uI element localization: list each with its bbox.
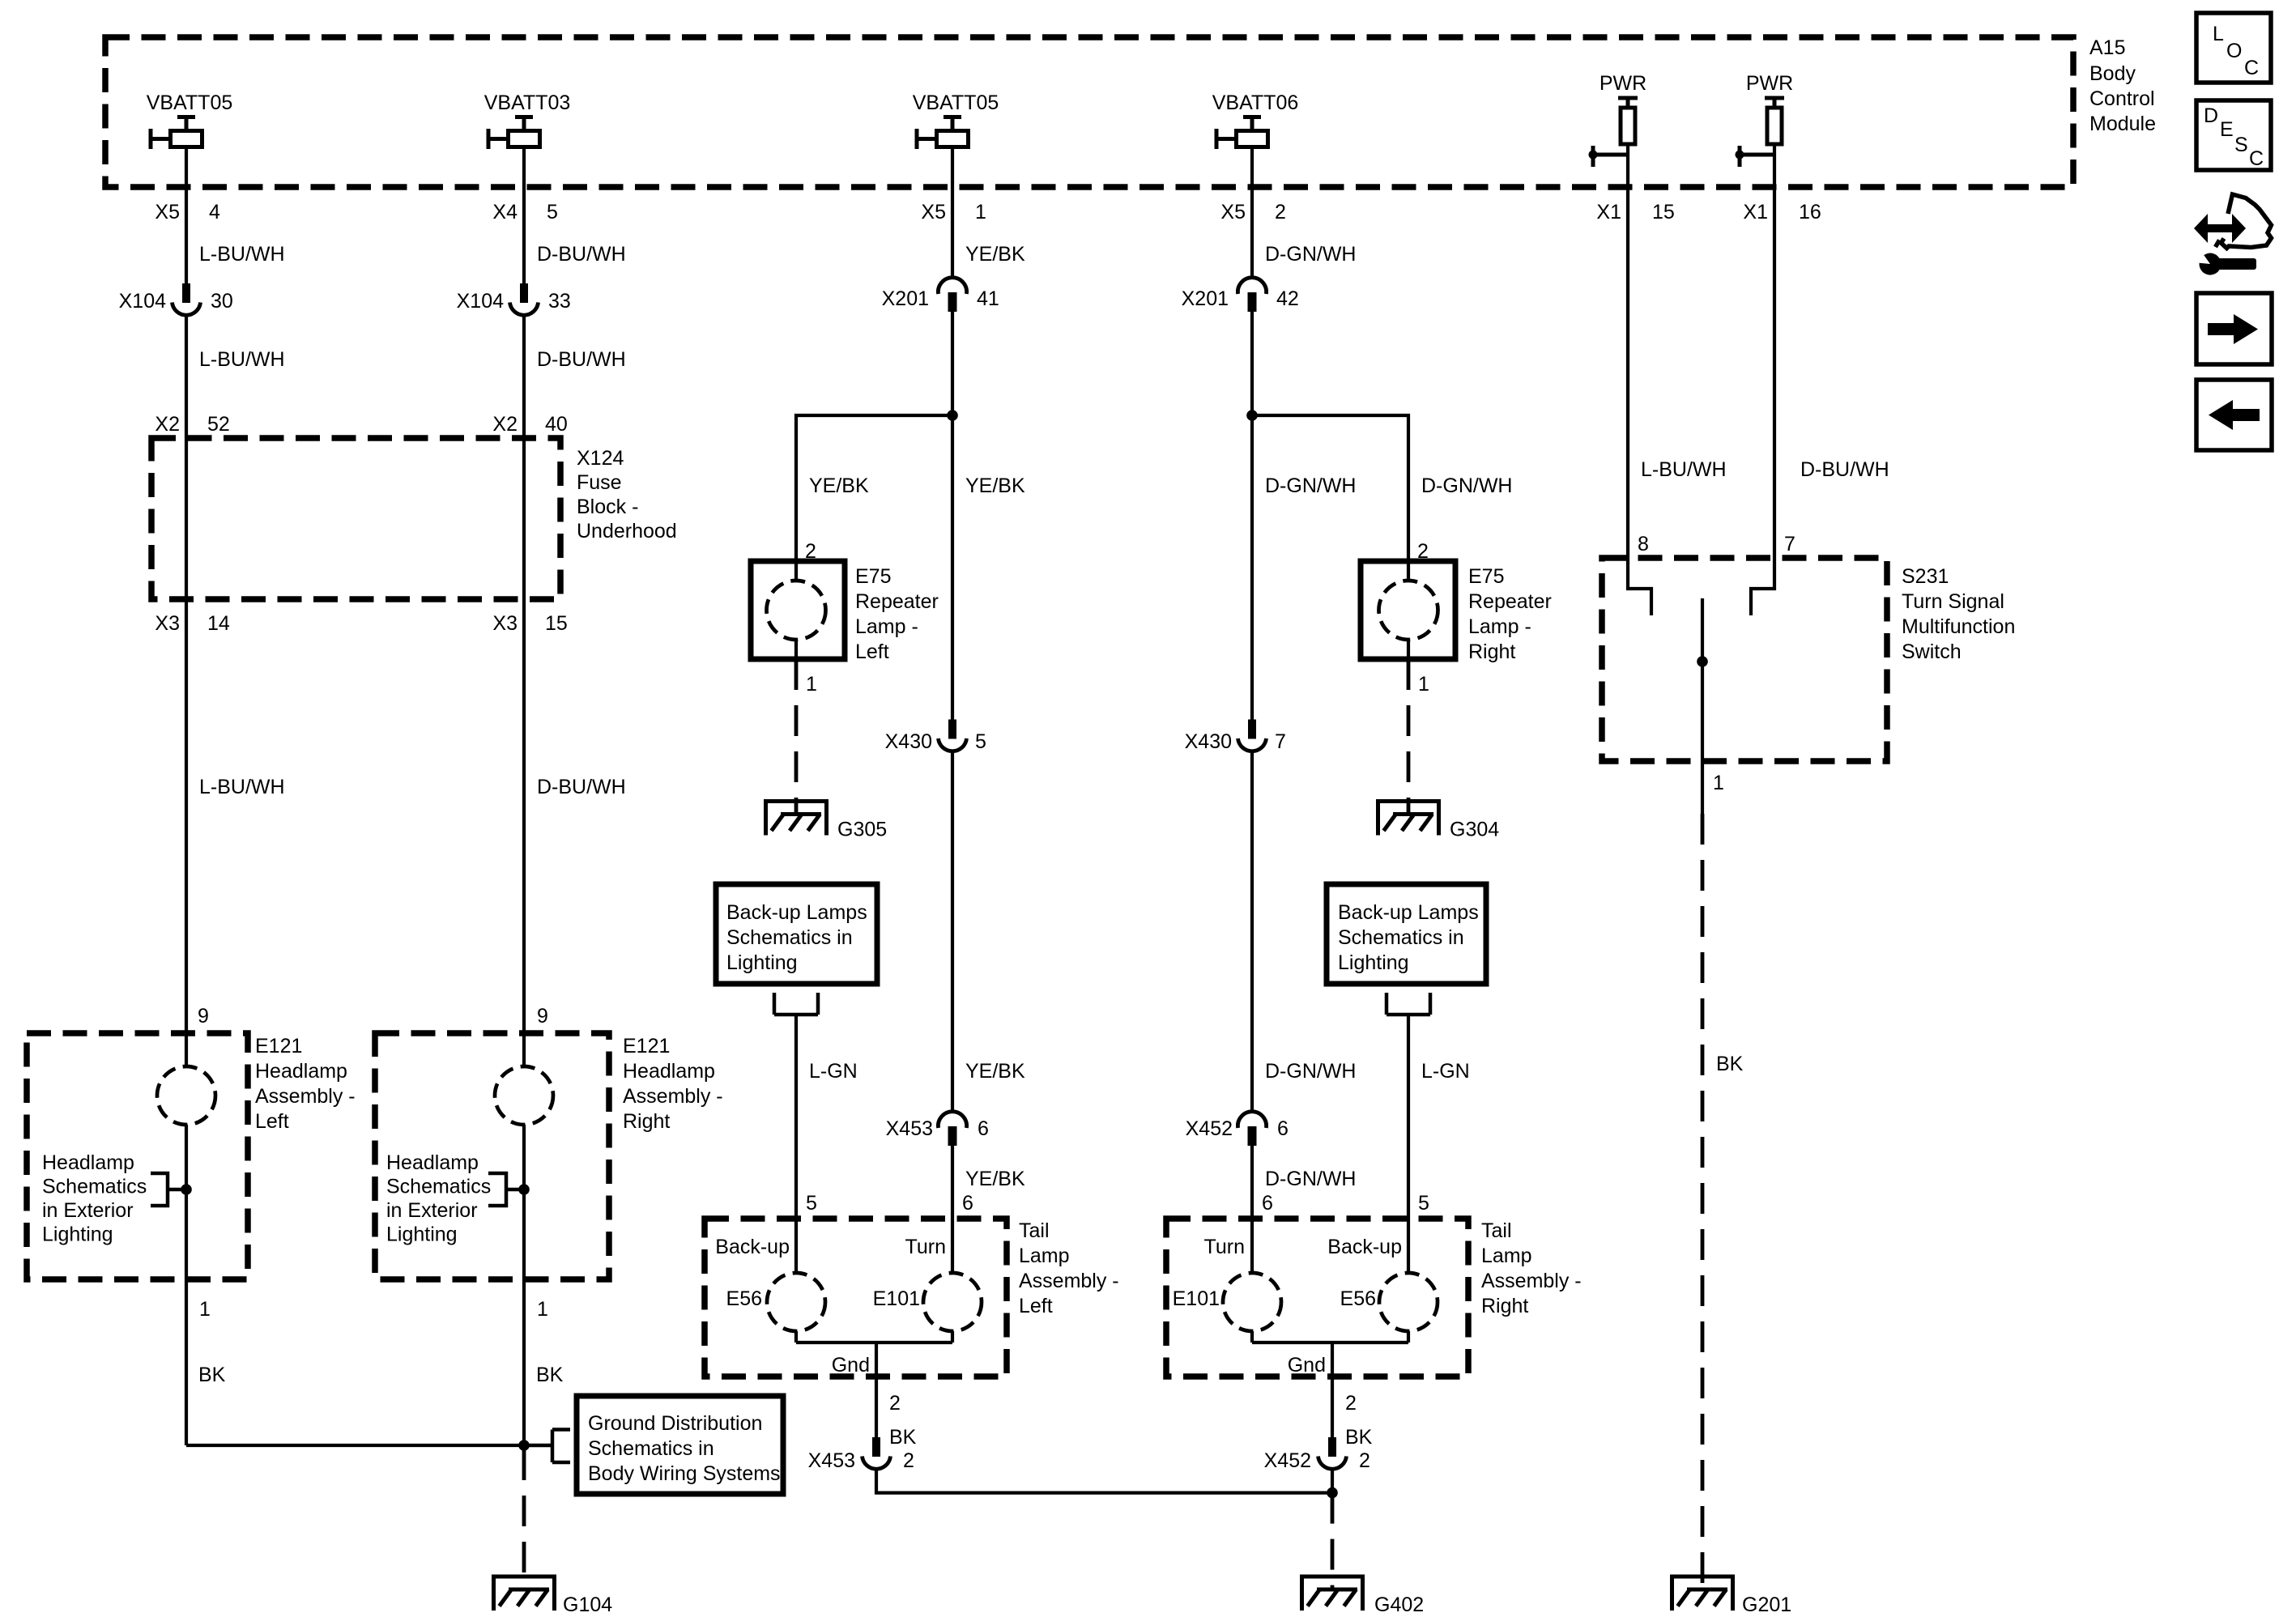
ground G104 <box>492 1575 612 1617</box>
svg-text:15: 15 <box>545 612 568 635</box>
svg-text:VBATT05: VBATT05 <box>147 91 233 114</box>
wire dashed E75 left to G305 <box>794 659 799 815</box>
svg-text:2: 2 <box>903 1449 914 1472</box>
lamp E56 back-up left <box>767 1273 825 1331</box>
node E121 left pin1 junction <box>181 1184 192 1195</box>
wire col5 PWR to S231 contact <box>1628 144 1651 615</box>
wire col2: lamp to ground run <box>522 1125 526 1448</box>
bracket below back-up box (right) <box>1387 993 1430 1015</box>
svg-text:L-BU/WH: L-BU/WH <box>199 348 285 371</box>
svg-text:9: 9 <box>198 1005 209 1028</box>
svg-text:Repeater: Repeater <box>1468 590 1552 613</box>
svg-text:E101: E101 <box>873 1287 920 1310</box>
svg-text:X5: X5 <box>921 201 946 223</box>
node E121 right pin1 junction <box>518 1184 530 1195</box>
fuse VBATT03 (right) <box>484 91 571 149</box>
wire L-GN to back-up lamp E56 left <box>794 1015 798 1273</box>
svg-text:D-GN/WH: D-GN/WH <box>1265 1168 1356 1190</box>
svg-text:E56: E56 <box>726 1287 762 1310</box>
svg-text:E101: E101 <box>1173 1287 1220 1310</box>
E121 left label <box>255 1035 356 1133</box>
wire col6 PWR to S231 contact <box>1751 144 1774 615</box>
svg-text:BK: BK <box>1716 1053 1744 1075</box>
svg-text:15: 15 <box>1652 201 1675 223</box>
connector X453 pin 6 <box>886 1112 989 1146</box>
svg-text:BK: BK <box>198 1364 226 1386</box>
svg-text:4: 4 <box>209 201 220 223</box>
svg-text:X2: X2 <box>492 413 518 436</box>
wire BK col1 to col2 <box>186 1444 524 1447</box>
svg-text:Lighting: Lighting <box>726 951 798 974</box>
svg-text:X104: X104 <box>119 290 166 313</box>
pin X4-5 of A15 <box>492 201 558 223</box>
svg-text:Tail: Tail <box>1481 1219 1512 1242</box>
lamp E121 left <box>157 1066 215 1125</box>
E121 Headlamp Assembly - Right dashed box <box>375 1033 609 1279</box>
wires lamp bottoms to Gnd bus (left) <box>796 1331 952 1437</box>
Tail Lamp Assembly - Left dashed box <box>705 1219 1007 1377</box>
wire col4: X452 to tail lamp <box>1250 1146 1254 1274</box>
wrench icon head <box>2199 253 2221 275</box>
svg-text:2: 2 <box>1359 1449 1370 1472</box>
wire branch to repeater lamp right <box>1252 415 1408 561</box>
svg-text:D-GN/WH: D-GN/WH <box>1265 474 1356 497</box>
svg-text:Body Wiring Systems: Body Wiring Systems <box>588 1462 781 1485</box>
svg-text:Left: Left <box>255 1110 289 1133</box>
svg-text:Tail: Tail <box>1019 1219 1050 1242</box>
reference bracket to Ground Distribution box <box>524 1430 570 1463</box>
svg-text:41: 41 <box>977 287 999 310</box>
svg-text:E121: E121 <box>255 1035 302 1057</box>
double-headed arrow of vehicle icon <box>2194 214 2246 243</box>
svg-text:PWR: PWR <box>1746 72 1793 95</box>
svg-text:S: S <box>2234 134 2248 156</box>
wire col2: fuse to X104 <box>522 147 526 284</box>
svg-text:Fuse: Fuse <box>577 471 622 494</box>
svg-text:L-GN: L-GN <box>1421 1060 1470 1083</box>
Back-up Lamps label (left) <box>726 901 867 974</box>
svg-text:Back-up Lamps: Back-up Lamps <box>726 901 867 924</box>
svg-text:D-GN/WH: D-GN/WH <box>1421 474 1512 497</box>
Ground Distribution label <box>588 1412 781 1485</box>
wire col3: X201 to X430 <box>951 312 954 720</box>
node branch junction col4 <box>1246 410 1258 421</box>
svg-text:Lamp -: Lamp - <box>1468 615 1531 638</box>
svg-text:1: 1 <box>1418 673 1429 696</box>
bracket below back-up box (left) <box>774 993 818 1015</box>
svg-text:G402: G402 <box>1374 1594 1424 1616</box>
S231 Turn Signal Multifunction Switch dashed box <box>1602 558 1887 761</box>
svg-text:X104: X104 <box>457 290 504 313</box>
svg-text:X1: X1 <box>1596 201 1621 223</box>
svg-text:Headlamp: Headlamp <box>42 1151 134 1174</box>
svg-text:E75: E75 <box>1468 565 1504 588</box>
svg-text:G305: G305 <box>837 819 887 841</box>
left arrow icon box <box>2196 380 2272 450</box>
svg-text:Underhood: Underhood <box>577 520 677 543</box>
lamp E75 right <box>1407 561 1410 659</box>
svg-text:Lighting: Lighting <box>1338 951 1409 974</box>
lamp E101 turn left <box>923 1273 982 1331</box>
node BK junction col1/col2 <box>518 1440 530 1451</box>
svg-text:6: 6 <box>962 1192 973 1215</box>
wire L-GN to back-up lamp E56 right <box>1407 1015 1410 1273</box>
svg-text:Schematics: Schematics <box>386 1176 491 1198</box>
svg-text:1: 1 <box>975 201 986 223</box>
svg-text:9: 9 <box>537 1005 548 1028</box>
lamp E75 left <box>794 561 798 659</box>
svg-text:2: 2 <box>1275 201 1286 223</box>
svg-text:S231: S231 <box>1902 565 1949 588</box>
svg-text:Right: Right <box>623 1110 670 1133</box>
svg-text:L-GN: L-GN <box>809 1060 858 1083</box>
wire col1: fuse to X104 <box>185 147 188 284</box>
svg-text:Schematics in: Schematics in <box>1338 926 1464 949</box>
svg-text:Left: Left <box>1019 1295 1053 1317</box>
lamp E121 right <box>495 1066 553 1125</box>
Tail Lamp Assembly - Right label <box>1481 1219 1582 1317</box>
svg-text:6: 6 <box>1262 1192 1273 1215</box>
svg-text:D: D <box>2204 104 2218 127</box>
svg-text:33: 33 <box>548 290 571 313</box>
Back-up Lamps label (right) <box>1338 901 1479 974</box>
lamp E56 back-up right <box>1379 1273 1438 1331</box>
vehicle icon front stub <box>2216 240 2220 248</box>
svg-text:X4: X4 <box>492 201 518 223</box>
svg-text:G104: G104 <box>563 1594 612 1616</box>
svg-text:X453: X453 <box>808 1449 855 1472</box>
svg-text:in Exterior: in Exterior <box>42 1199 134 1222</box>
Back-up Lamps Schematics note box (left) <box>716 884 877 984</box>
E75 Repeater Lamp - Left box <box>751 561 845 659</box>
fuse VBATT05 (left) <box>147 91 233 149</box>
wire col4: fuse to X201 <box>1250 147 1254 279</box>
connector X453 pin 2 (left) <box>808 1437 914 1472</box>
svg-text:Headlamp: Headlamp <box>255 1060 347 1083</box>
wire dashed E75 right to G304 <box>1407 659 1411 815</box>
svg-text:X430: X430 <box>885 730 932 753</box>
svg-text:L-BU/WH: L-BU/WH <box>199 243 285 266</box>
svg-text:42: 42 <box>1276 287 1299 310</box>
X124 Fuse Block label <box>577 447 677 543</box>
svg-text:BK: BK <box>889 1426 917 1449</box>
svg-text:Repeater: Repeater <box>855 590 939 613</box>
svg-text:X201: X201 <box>882 287 929 310</box>
svg-text:Lighting: Lighting <box>386 1223 458 1246</box>
E75 Repeater Lamp - Right box <box>1361 561 1455 659</box>
svg-text:Schematics: Schematics <box>42 1176 147 1198</box>
pin X5-2 of A15 <box>1220 201 1286 223</box>
svg-text:Headlamp: Headlamp <box>623 1060 715 1083</box>
svg-text:X3: X3 <box>492 612 518 635</box>
connector X452 pin 6 <box>1186 1112 1289 1146</box>
vehicle orientation icon (car outline) <box>2221 194 2272 249</box>
Tail Lamp Assembly - Left label <box>1019 1219 1119 1317</box>
wire branch to repeater lamp left <box>796 415 952 561</box>
svg-text:X452: X452 <box>1186 1117 1233 1140</box>
wire dashed BK to G201 <box>1701 814 1705 1589</box>
pin X2-52 of X124 <box>155 413 229 436</box>
svg-text:Left: Left <box>855 640 889 663</box>
connector X430 pin 5 <box>885 720 986 754</box>
svg-text:YE/BK: YE/BK <box>965 243 1025 266</box>
connector X104 pin 30 <box>119 283 233 315</box>
svg-text:1: 1 <box>806 673 817 696</box>
svg-text:Lamp -: Lamp - <box>855 615 918 638</box>
connector X104 pin 33 <box>457 283 571 315</box>
fuse VBATT06 (mid-right) <box>1212 91 1299 149</box>
connector X201 pin 42 <box>1182 278 1299 312</box>
svg-text:Assembly -: Assembly - <box>1481 1270 1582 1292</box>
reference bracket to E121 left <box>151 1173 186 1206</box>
pin X3-15 of X124 <box>492 612 567 635</box>
svg-text:Back-up: Back-up <box>715 1236 790 1258</box>
svg-text:5: 5 <box>975 730 986 753</box>
svg-text:Lighting: Lighting <box>42 1223 113 1246</box>
wire col4: X430 to X452 <box>1250 752 1254 1113</box>
svg-text:X430: X430 <box>1185 730 1232 753</box>
Tail Lamp Assembly - Right dashed box <box>1166 1219 1468 1377</box>
svg-text:E56: E56 <box>1340 1287 1376 1310</box>
svg-text:Back-up Lamps: Back-up Lamps <box>1338 901 1479 924</box>
S231 label <box>1902 565 2015 663</box>
pin X3-14 of X124 <box>155 612 229 635</box>
svg-text:X3: X3 <box>155 612 180 635</box>
svg-text:YE/BK: YE/BK <box>965 1168 1025 1190</box>
E75 left label <box>855 565 939 663</box>
X124 Fuse Block - Underhood dashed box <box>151 438 560 599</box>
node branch junction col3 <box>947 410 958 421</box>
wire X453-2 to ground link <box>876 1470 1332 1493</box>
node ground link junction <box>1327 1487 1338 1499</box>
Back-up Lamps Schematics note box (right) <box>1327 884 1486 984</box>
wire dashed col2 to G104 <box>522 1449 526 1589</box>
connector X430 pin 7 <box>1185 720 1286 754</box>
svg-text:in Exterior: in Exterior <box>386 1199 478 1222</box>
svg-text:1: 1 <box>1713 772 1724 794</box>
svg-text:8: 8 <box>1638 533 1649 555</box>
svg-text:C: C <box>2249 147 2264 170</box>
wire col2: X104 to E121 lamp <box>522 316 526 1066</box>
svg-text:X2: X2 <box>155 413 180 436</box>
svg-text:D-GN/WH: D-GN/WH <box>1265 1060 1356 1083</box>
PWR output left of A15 <box>1589 72 1647 167</box>
pin X2-40 of X124 <box>492 413 567 436</box>
svg-text:Control: Control <box>2089 87 2155 110</box>
LOC icon box <box>2196 13 2271 83</box>
svg-text:Turn: Turn <box>905 1236 946 1258</box>
svg-text:X1: X1 <box>1743 201 1768 223</box>
svg-text:7: 7 <box>1784 533 1795 555</box>
svg-text:Back-up: Back-up <box>1327 1236 1402 1258</box>
svg-text:X453: X453 <box>886 1117 933 1140</box>
svg-text:D-BU/WH: D-BU/WH <box>537 243 626 266</box>
wire col3: X430 to X453 <box>951 752 954 1113</box>
svg-text:Body: Body <box>2089 62 2136 85</box>
svg-text:Schematics in: Schematics in <box>726 926 853 949</box>
svg-text:A15: A15 <box>2089 36 2125 59</box>
wire col4: X201 to X430 <box>1250 312 1254 720</box>
wire col3: X453 to tail lamp <box>951 1146 954 1274</box>
Ground Distribution Schematics box <box>577 1396 783 1494</box>
svg-text:16: 16 <box>1799 201 1821 223</box>
A15 Body Control Module dashed box <box>105 37 2073 187</box>
wire col1: X104 to E121 lamp <box>185 316 188 1066</box>
svg-text:Turn: Turn <box>1204 1236 1245 1258</box>
svg-text:L: L <box>2213 23 2224 45</box>
note Headlamp Schematics in Exterior Lighting (right) <box>386 1151 491 1246</box>
svg-text:Assembly -: Assembly - <box>255 1085 356 1108</box>
svg-text:Headlamp: Headlamp <box>386 1151 479 1174</box>
svg-text:D-BU/WH: D-BU/WH <box>1800 458 1889 481</box>
wire dashed to G402 <box>1331 1493 1335 1589</box>
svg-text:5: 5 <box>1418 1192 1429 1215</box>
svg-text:Lamp: Lamp <box>1481 1245 1532 1267</box>
ground G201 <box>1670 1575 1791 1617</box>
pin X5-4 of A15 <box>155 201 220 223</box>
svg-text:2: 2 <box>1345 1392 1357 1415</box>
svg-text:Multifunction: Multifunction <box>1902 615 2015 638</box>
svg-text:Block -: Block - <box>577 496 638 518</box>
svg-text:D-BU/WH: D-BU/WH <box>537 776 626 798</box>
svg-text:YE/BK: YE/BK <box>809 474 869 497</box>
svg-text:Gnd: Gnd <box>832 1354 870 1377</box>
lamp E101 turn right <box>1223 1273 1281 1331</box>
wire X452-2 stub <box>1331 1470 1334 1493</box>
svg-text:E: E <box>2220 118 2234 141</box>
svg-text:X124: X124 <box>577 447 624 470</box>
svg-text:VBATT03: VBATT03 <box>484 91 571 114</box>
DESC icon box <box>2196 100 2271 170</box>
E121 right label <box>623 1035 723 1133</box>
svg-text:Assembly -: Assembly - <box>1019 1270 1119 1292</box>
svg-text:BK: BK <box>536 1364 564 1386</box>
svg-text:VBATT06: VBATT06 <box>1212 91 1299 114</box>
svg-text:X452: X452 <box>1264 1449 1311 1472</box>
svg-text:D-BU/WH: D-BU/WH <box>537 348 626 371</box>
svg-text:L-BU/WH: L-BU/WH <box>1641 458 1727 481</box>
svg-text:X5: X5 <box>155 201 180 223</box>
wire col1: lamp to BK run <box>185 1125 188 1445</box>
A15 Body Control Module label <box>2089 36 2156 135</box>
svg-text:X5: X5 <box>1220 201 1246 223</box>
svg-text:Module: Module <box>2089 113 2156 135</box>
svg-text:Assembly -: Assembly - <box>623 1085 723 1108</box>
svg-text:7: 7 <box>1275 730 1286 753</box>
pin X1-15 of A15 <box>1596 201 1674 223</box>
svg-text:G304: G304 <box>1450 819 1499 841</box>
svg-text:1: 1 <box>537 1298 548 1321</box>
svg-text:G201: G201 <box>1742 1594 1791 1616</box>
connector X201 pin 41 <box>882 278 999 312</box>
right arrow icon box <box>2196 293 2272 364</box>
svg-text:Schematics in: Schematics in <box>588 1437 714 1460</box>
svg-text:2: 2 <box>889 1392 901 1415</box>
node S231 wiper junction <box>1697 656 1708 667</box>
svg-text:14: 14 <box>207 612 230 635</box>
connector X452 pin 2 (right) <box>1264 1437 1370 1472</box>
svg-text:Gnd: Gnd <box>1288 1354 1326 1377</box>
svg-text:5: 5 <box>806 1192 817 1215</box>
svg-text:Right: Right <box>1468 640 1515 663</box>
svg-text:YE/BK: YE/BK <box>965 1060 1025 1083</box>
wires lamp bottoms to Gnd bus (right) <box>1252 1331 1408 1437</box>
svg-text:YE/BK: YE/BK <box>965 474 1025 497</box>
svg-text:Turn Signal: Turn Signal <box>1902 590 2004 613</box>
pin X1-16 of A15 <box>1743 201 1821 223</box>
fuse VBATT05 (mid-left) <box>913 91 999 149</box>
wire S231 common output <box>1701 598 1704 814</box>
wrench icon handle <box>2217 258 2256 270</box>
ground G402 <box>1300 1575 1424 1617</box>
note Headlamp Schematics in Exterior Lighting (left) <box>42 1151 147 1246</box>
svg-text:VBATT05: VBATT05 <box>913 91 999 114</box>
PWR output right of A15 <box>1736 72 1794 167</box>
svg-text:52: 52 <box>207 413 230 436</box>
svg-text:40: 40 <box>545 413 568 436</box>
svg-text:5: 5 <box>547 201 558 223</box>
svg-text:Switch: Switch <box>1902 640 1962 663</box>
svg-text:6: 6 <box>978 1117 989 1140</box>
reference bracket to E121 right <box>488 1173 524 1206</box>
svg-text:BK: BK <box>1345 1426 1373 1449</box>
svg-text:Ground Distribution: Ground Distribution <box>588 1412 762 1435</box>
svg-text:O: O <box>2226 40 2242 62</box>
ground G304 <box>1376 799 1499 841</box>
pin X5-1 of A15 <box>921 201 986 223</box>
svg-text:6: 6 <box>1277 1117 1289 1140</box>
svg-text:L-BU/WH: L-BU/WH <box>199 776 285 798</box>
svg-text:E75: E75 <box>855 565 891 588</box>
svg-text:30: 30 <box>211 290 233 313</box>
svg-text:1: 1 <box>199 1298 211 1321</box>
svg-text:Lamp: Lamp <box>1019 1245 1070 1267</box>
E75 right label <box>1468 565 1552 663</box>
ground G305 <box>764 799 887 841</box>
svg-text:D-GN/WH: D-GN/WH <box>1265 243 1356 266</box>
svg-text:E121: E121 <box>623 1035 670 1057</box>
E121 Headlamp Assembly - Left dashed box <box>27 1033 248 1279</box>
svg-text:X201: X201 <box>1182 287 1229 310</box>
svg-text:C: C <box>2244 57 2259 79</box>
svg-text:Right: Right <box>1481 1295 1528 1317</box>
svg-text:PWR: PWR <box>1600 72 1646 95</box>
wire col3: fuse to X201 <box>951 147 954 279</box>
